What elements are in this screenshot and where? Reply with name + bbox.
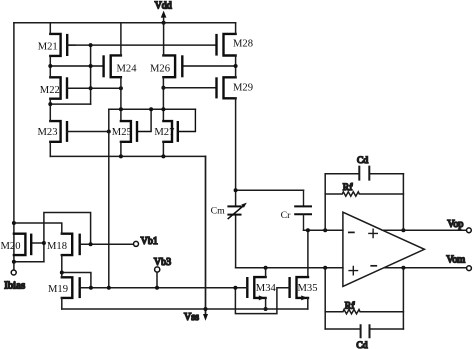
wire op-amp minus input line [304,229,343,231]
svg-text:Vb1: Vb1 [141,236,158,247]
wire top Vdd rail [14,22,236,24]
svg-text:M18: M18 [47,241,67,252]
node mid rail M25 drain [119,107,123,111]
node Vom feedback tap [401,266,405,270]
wire M27 source down [162,142,164,157]
node M27 source junction [161,154,165,158]
resistor Rf top [325,182,403,196]
wire M35 gate loop [235,288,289,314]
op-amp U1 [343,212,425,286]
wire feedback top box [325,174,403,230]
node Cm top junction [234,188,238,192]
svg-text:Rf: Rf [343,182,353,193]
wire bottom Vss rail [62,308,308,310]
node Vss rail junction [204,307,208,311]
svg-text:Vb3: Vb3 [154,257,171,268]
wire M29 gate line [163,87,216,89]
node feedback top left tap [323,228,327,232]
wire mid rail M25 M27 drains [109,108,196,110]
svg-text:Cm: Cm [211,205,226,216]
transistor M35 [290,277,318,300]
wire M22 source to M23 drain [49,99,51,121]
node M35 drain tap [306,228,310,232]
wire M29 source long vertical upper [235,98,237,206]
wire op-amp plus input line [236,267,343,269]
transistor M29 [217,77,254,98]
node left rail drain junction [12,221,16,225]
svg-text:Cr: Cr [281,210,292,221]
node M23 gate junction [107,130,111,134]
node M29 gate to M26 source [161,86,165,90]
wire M34 drain riser [265,268,267,277]
transistor M27 [154,109,195,142]
wire M22 source link [50,103,90,105]
node mid rail M27 drain [161,107,165,111]
node M34 drain junction [264,266,268,270]
node M35 gate loop junction [233,286,237,290]
transistor M18 [47,234,80,255]
wire M19 source drop [61,298,63,309]
node Vop feedback tap [401,228,405,232]
node M18 source junction [60,271,64,275]
wire M35 drain to minus line [307,230,309,277]
transistor M22 [40,77,67,98]
node M26 gate to M28 source [234,64,238,68]
node M22 gate junction [89,86,93,90]
svg-text:M23: M23 [38,127,58,138]
svg-text:M20: M20 [1,241,21,252]
capacitor Cm [211,203,247,219]
transistor M20 [1,234,44,255]
svg-text:Vss: Vss [184,312,199,323]
node M34 source junction [264,307,268,311]
svg-text:Cd: Cd [356,340,367,349]
svg-text:Cd: Cd [357,155,368,166]
wire M22 gate line [67,87,121,89]
svg-text:M29: M29 [233,83,253,94]
wire M34 source drop [265,298,267,309]
wire M29 source long vertical lower [235,215,237,268]
transistor M28 [217,34,254,56]
resistor Rf bottom [325,301,403,314]
svg-text:M27: M27 [154,127,174,138]
wire M23 gate line [67,131,109,133]
wire M28 source to M29 drain [235,56,237,78]
node M18 gate junction [89,242,93,246]
svg-text:M28: M28 [233,38,253,49]
Vss terminal arrow [184,312,208,323]
capacitor Cr [281,190,311,230]
svg-text:Vop: Vop [447,219,463,230]
Vop terminal [447,219,471,233]
svg-text:M26: M26 [150,63,170,74]
Vom terminal [446,255,471,271]
wire M20 source link [14,261,44,263]
svg-text:M22: M22 [40,85,60,96]
wire M24 drain [120,23,122,56]
wire M18 source to M19 drain [61,255,63,277]
wire Vom output line [384,267,466,269]
node M24 gate junction [89,64,93,68]
transistor M24 [50,55,137,77]
capacitor Cd bottom [325,325,403,349]
transistor M21 [38,34,75,56]
wire Cm Cr top link [236,189,304,191]
node M20 source junction [12,260,16,264]
node M20 gate junction [42,241,46,245]
Vb1 terminal [134,236,158,247]
wire source to gate link [62,273,91,288]
wire M25 source down [120,142,122,157]
svg-text:Ibias: Ibias [4,279,25,291]
transistor M34 [247,277,276,300]
svg-text:Rf: Rf [345,301,355,312]
svg-text:Vom: Vom [446,255,465,266]
node feedback bottom left tap [323,266,327,270]
node gate bus junction [89,43,93,47]
node Vdd rail junction [162,21,166,25]
node bias line long vertical junction [107,286,111,290]
svg-text:M19: M19 [48,284,68,295]
Vb3 terminal [154,257,171,288]
node M22 source link junction [48,102,52,106]
svg-text:M35: M35 [298,283,318,294]
svg-text:M25: M25 [112,127,132,138]
wire M26 source to M27 drain [162,77,164,121]
wire Vss source line [50,155,205,157]
wire M21 source to M22 drain [49,56,51,77]
wire Vop output line [382,229,466,231]
node M25 source junction [119,154,123,158]
node mid rail M25 gate tap [149,107,153,111]
wire M35 source drop [307,298,309,309]
capacitor Cd top [325,155,403,180]
node bias line link junction [89,286,93,290]
wire M18 gate Vb1 line [80,243,134,245]
transistor M19 [48,277,80,298]
wire left rail [13,23,15,270]
wire M26 drain [163,23,165,56]
wire M20 M18 drain link [14,223,62,234]
Vdd terminal [155,0,172,23]
svg-text:M34: M34 [256,283,277,294]
wire Vss vertical [205,156,207,314]
transistor M26 [150,55,236,77]
transistor M23 [38,121,68,142]
wire M24 source to M25 drain [120,77,122,121]
wire long vertical rail to bias line [108,109,110,287]
svg-text:Vdd: Vdd [155,0,172,11]
wire gate branch vertical [90,45,92,104]
wire bias gate line M19 to M34 [80,287,248,289]
node M22 gate to M24 source [119,86,123,90]
transistor M25 [112,109,151,142]
wire feedback bottom box [325,268,403,329]
svg-text:M24: M24 [117,63,138,74]
wire M23 source down [49,142,51,157]
wire M21 drain [49,23,51,34]
Ibias terminal [4,270,25,291]
wire gate bus M21 to M28 [67,44,216,46]
wire M20 gate loop [44,213,91,262]
node Vb3 junction [155,286,159,290]
svg-text:M21: M21 [38,42,58,53]
wire M28 drain from rail [235,23,237,34]
node M21 source to M24 gate junction [48,64,52,68]
